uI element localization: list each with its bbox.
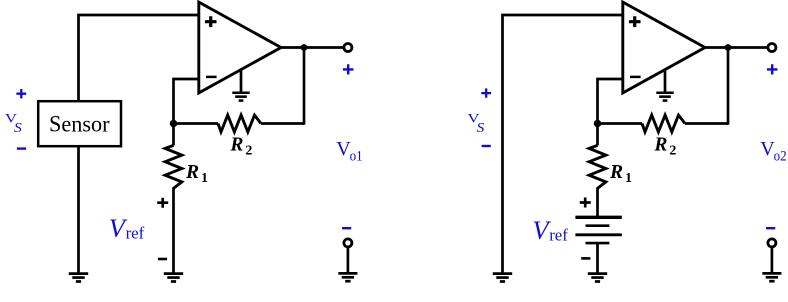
ground (op-amp)	[232, 91, 249, 94]
ground (battery)	[588, 272, 607, 275]
svg-text:R: R	[653, 135, 667, 156]
wire: R1 bottom to battery + plate	[596, 187, 599, 216]
wire: op-amp output	[704, 46, 768, 49]
op-amp U1	[199, 2, 281, 93]
svg-text:1: 1	[201, 171, 208, 186]
ground (sensor)	[69, 272, 88, 275]
wire: node to R2 left lead	[598, 122, 643, 125]
svg-text:S: S	[477, 121, 485, 136]
label - (reference terminal polarity)	[766, 227, 775, 229]
wire: node to R2 left lead	[174, 122, 219, 125]
wire: feedback vertical to output	[303, 46, 306, 125]
resistor R1	[172, 124, 175, 146]
svg-text:ref: ref	[126, 224, 145, 243]
wire: sensor top to op-amp + input	[79, 15, 200, 102]
label + (battery polarity)	[580, 198, 591, 208]
label + (V_S polarity)	[481, 88, 491, 97]
wire: feedback vertical to output	[727, 46, 730, 125]
svg-text:S: S	[14, 121, 22, 136]
label + (V_ref polarity)	[157, 198, 168, 208]
op-amp U2 noninverting input + marker	[629, 16, 641, 27]
ground (V_S source)	[493, 272, 512, 275]
op-amp U1 inverting input - marker	[206, 76, 217, 79]
wire: inverting input to feedback node	[598, 79, 623, 122]
label - (battery polarity)	[581, 257, 590, 260]
ground (op-amp)	[656, 91, 673, 94]
sensor box	[38, 101, 121, 146]
svg-text:2: 2	[245, 144, 252, 159]
ground (reference terminal)	[338, 272, 357, 275]
battery V_ref plate 3 (long +)	[575, 233, 621, 236]
node: R1/R2/inverting-input junction	[170, 120, 178, 128]
op-amp U2	[623, 2, 705, 93]
wire: sensor bottom to ground	[77, 146, 80, 272]
resistor R2	[642, 115, 685, 132]
svg-text:o1: o1	[350, 149, 363, 165]
wire: V_S source line to op-amp + input	[503, 15, 624, 273]
op-amp U2 inverting input - marker	[630, 76, 641, 79]
svg-text:1: 1	[625, 171, 632, 186]
battery V_ref plate 1 (long +)	[575, 216, 621, 219]
svg-text:ref: ref	[549, 226, 568, 245]
wire: op-amp output	[280, 46, 344, 49]
battery V_ref plate 2 (short -)	[586, 224, 610, 227]
battery V_ref plate 4 (short -)	[586, 242, 610, 245]
terminal Vo1 (open circle)	[344, 44, 352, 52]
wire: R2 right lead to feedback rise	[685, 122, 728, 125]
terminal Vo2 (open circle)	[768, 44, 776, 52]
wire: op-amp ground stem	[240, 70, 243, 92]
wire: R1 bottom to ground	[172, 187, 175, 272]
svg-text:R: R	[185, 162, 199, 183]
wire: inverting input to feedback node	[174, 79, 199, 122]
wire: R2 right lead to feedback rise	[261, 122, 304, 125]
svg-text:o2: o2	[774, 149, 787, 165]
resistor R2	[218, 115, 261, 132]
svg-text:R: R	[609, 162, 623, 183]
label + (output polarity)	[767, 64, 778, 74]
svg-text:Sensor: Sensor	[49, 111, 110, 136]
terminal (reference, open circle)	[768, 239, 776, 247]
label - (V_S polarity)	[17, 147, 26, 149]
wire: reference terminal stem	[347, 247, 350, 273]
label - (reference terminal polarity)	[342, 227, 351, 229]
svg-text:2: 2	[669, 144, 676, 159]
wire: op-amp ground stem	[664, 70, 667, 92]
node: R1/R2/inverting-input junction	[594, 120, 602, 128]
label - (V_S polarity)	[482, 145, 491, 147]
label - (V_ref polarity)	[158, 258, 167, 261]
node: output junction	[301, 44, 308, 51]
wire: battery - plate to ground	[596, 243, 599, 273]
ground (R1 / V_ref return)	[164, 272, 183, 275]
resistor R1	[596, 124, 599, 146]
ground (reference terminal)	[762, 272, 781, 275]
terminal (reference, open circle)	[344, 239, 352, 247]
node: output junction	[725, 44, 732, 51]
wire: reference terminal stem	[771, 247, 774, 273]
op-amp U1 noninverting input + marker	[205, 16, 217, 27]
label + (output polarity)	[343, 64, 354, 74]
label + (V_S polarity)	[16, 89, 26, 98]
svg-text:R: R	[229, 135, 243, 156]
